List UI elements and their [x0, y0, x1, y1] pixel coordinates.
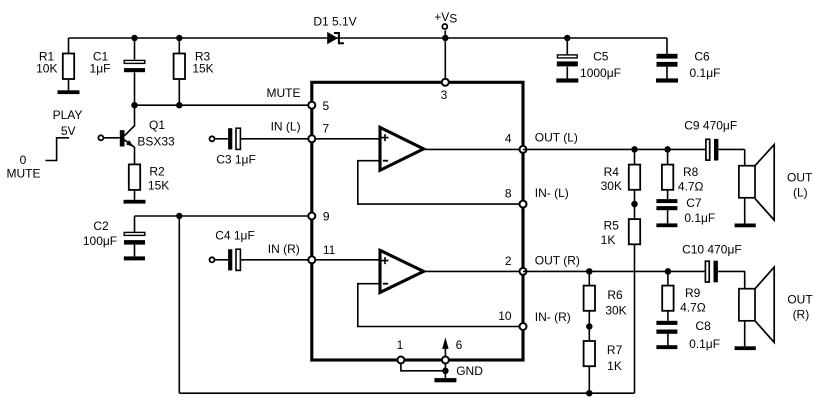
svg-text:1: 1	[397, 338, 404, 352]
resistor R3	[174, 38, 185, 105]
svg-text:C8: C8	[695, 319, 711, 333]
svg-text:R9: R9	[685, 286, 701, 300]
op-amp U1A (left channel)	[380, 127, 424, 170]
svg-text:C10 470μF: C10 470μF	[682, 243, 742, 257]
svg-text:1000μF: 1000μF	[580, 66, 621, 80]
capacitor C1	[124, 38, 145, 105]
wire pin 4 OUT (L)	[523, 148, 706, 150]
resistor R6	[584, 271, 595, 326]
capacitor C5	[557, 38, 578, 78]
svg-text:R8: R8	[683, 165, 699, 179]
ground for C6	[656, 78, 678, 82]
C5 value label	[580, 50, 621, 81]
ground for speaker R	[735, 346, 756, 350]
svg-text:D1 5.1V: D1 5.1V	[313, 15, 356, 29]
svg-text:1K: 1K	[601, 233, 616, 247]
op-amp U1 package outline	[312, 82, 523, 360]
node C5 junction	[564, 35, 571, 42]
pin 1	[397, 357, 404, 364]
wire pin 11 to U1B + input	[312, 259, 380, 261]
op-amp U1B (right channel)	[380, 250, 424, 292]
node R3 bottom junction	[176, 102, 183, 109]
wire pin 1 to ground junction	[401, 363, 446, 370]
svg-text:0.1μF: 0.1μF	[690, 66, 721, 80]
R4 value label	[601, 165, 622, 193]
node C1 top junction	[131, 35, 138, 42]
svg-text:4: 4	[505, 131, 512, 145]
svg-text:0.1μF: 0.1μF	[684, 211, 715, 225]
R8 value label	[678, 165, 704, 194]
ground for speaker L	[735, 224, 756, 228]
capacitor C3 input terminal	[210, 136, 229, 141]
svg-text:100μF: 100μF	[83, 234, 117, 248]
svg-text:GND: GND	[456, 364, 483, 378]
svg-text:7: 7	[323, 122, 330, 136]
node ground junction	[442, 368, 449, 375]
svg-text:S: S	[449, 12, 457, 26]
svg-text:10: 10	[498, 309, 512, 323]
wire junction down to bottom rail	[178, 216, 180, 393]
node R4 top junction	[631, 146, 638, 153]
capacitor C7	[656, 199, 677, 223]
svg-text:R4: R4	[604, 165, 620, 179]
pin 8	[520, 201, 527, 208]
OUT (R) output label	[787, 293, 813, 322]
svg-text:+V: +V	[434, 10, 449, 24]
resistor R1	[63, 38, 74, 90]
wire U1A - input feedback to pin 8	[358, 161, 523, 204]
wire pin 6 to ground	[444, 363, 446, 378]
wire C2 to pin 9	[135, 215, 312, 217]
pin 2	[520, 268, 527, 275]
C8 value label	[689, 319, 720, 351]
R1 value label	[36, 50, 57, 76]
ground for C7	[656, 223, 677, 227]
node R6/R7 junction	[586, 323, 593, 330]
svg-text:(R): (R)	[793, 308, 810, 322]
svg-text:30K: 30K	[601, 179, 622, 193]
svg-text:4.7Ω: 4.7Ω	[680, 301, 706, 315]
svg-text:OUT (R): OUT (R)	[535, 253, 580, 267]
diode D1 (zener 5.1V)	[327, 32, 344, 44]
wire MUTE net to pin 5	[135, 104, 312, 106]
R9 value label	[680, 286, 706, 315]
svg-text:PLAY: PLAY	[53, 108, 83, 122]
svg-text:10K: 10K	[36, 62, 57, 76]
node R9 top junction	[665, 268, 672, 275]
svg-text:11: 11	[323, 243, 336, 257]
capacitor C3	[228, 128, 312, 149]
resistor R8	[662, 149, 673, 199]
capacitor C9	[706, 139, 745, 161]
pin 10	[520, 323, 527, 330]
svg-text:C3 1μF: C3 1μF	[216, 152, 256, 166]
svg-text:0: 0	[20, 153, 27, 167]
svg-text:0.1μF: 0.1μF	[689, 337, 720, 351]
svg-text:1K: 1K	[607, 359, 622, 373]
ground for R1	[58, 90, 80, 94]
resistor R5	[629, 204, 640, 393]
R3 value label	[192, 50, 213, 76]
ground for R2	[124, 200, 146, 204]
C2 value label	[83, 219, 117, 248]
node R7 bottom junction	[586, 390, 593, 397]
node feedback-return junction	[176, 213, 183, 220]
pin 6 arrow inside package	[442, 337, 448, 357]
pin 6	[442, 357, 449, 364]
ground symbol GND	[434, 378, 456, 382]
svg-text:4.7Ω: 4.7Ω	[678, 180, 704, 194]
PLAY label	[7, 108, 83, 181]
transistor Q1	[120, 105, 135, 164]
svg-text:IN- (L): IN- (L)	[535, 186, 569, 200]
wire U1B output to pin 2	[424, 270, 523, 272]
svg-text:30K: 30K	[605, 304, 626, 318]
node R4/R5 junction	[631, 201, 638, 208]
svg-text:(L): (L)	[793, 186, 808, 200]
wire U1A output to pin 4	[424, 148, 523, 150]
ground for C2	[124, 256, 145, 260]
svg-text:C6: C6	[694, 50, 710, 64]
ground for C8	[656, 345, 677, 349]
svg-text:5: 5	[323, 99, 330, 113]
speaker OUT (L)	[739, 145, 774, 224]
capacitor C4 input terminal	[210, 257, 229, 262]
svg-text:OUT: OUT	[787, 171, 813, 185]
R7 value label	[607, 343, 623, 373]
svg-text:BSX33: BSX33	[137, 135, 175, 149]
svg-text:Q1: Q1	[149, 118, 165, 132]
Q1 value label	[137, 118, 175, 149]
pin 4	[520, 146, 527, 153]
svg-text:C5: C5	[593, 50, 609, 64]
capacitor C4	[228, 249, 312, 270]
svg-text:C2: C2	[93, 219, 109, 233]
pin 9	[308, 213, 315, 220]
wire C10 to speaker R	[744, 271, 746, 288]
svg-text:IN (L): IN (L)	[271, 119, 301, 133]
wire top supply rail	[69, 37, 668, 39]
svg-text:R6: R6	[607, 288, 623, 302]
wire U1B - input feedback to pin 10	[358, 284, 523, 327]
wire pin 2 OUT (R)	[523, 270, 705, 272]
wire pin 7 to U1A + input	[312, 138, 380, 140]
node +VS junction	[442, 35, 449, 42]
R6 value label	[605, 288, 626, 318]
R2 value label	[148, 165, 169, 193]
svg-text:C4 1μF: C4 1μF	[215, 229, 255, 243]
pin 11	[308, 256, 315, 263]
wire C9 to speaker L	[744, 149, 746, 165]
svg-text:2: 2	[505, 254, 512, 268]
+VS label	[434, 10, 457, 26]
svg-text:1μF: 1μF	[90, 62, 111, 76]
svg-text:R7: R7	[607, 343, 623, 357]
svg-text:C7: C7	[686, 196, 702, 210]
node R8 top junction	[664, 146, 671, 153]
svg-text:9: 9	[323, 210, 330, 224]
ground for C5	[556, 78, 578, 82]
svg-text:3: 3	[441, 88, 448, 102]
resistor R7	[584, 327, 595, 394]
capacitor C10	[705, 261, 745, 283]
+VS supply terminal	[442, 24, 447, 38]
capacitor C2	[124, 216, 145, 256]
pin 3	[442, 79, 449, 86]
node R6 top junction	[586, 268, 593, 275]
resistor R9	[662, 271, 673, 320]
C1 value label	[90, 50, 111, 76]
speaker OUT (R)	[739, 267, 774, 346]
transistor Q1 input terminal	[98, 135, 119, 140]
C7 value label	[684, 196, 715, 225]
OUT (L) output label	[787, 171, 813, 200]
svg-text:C9 470μF: C9 470μF	[684, 119, 737, 133]
svg-text:6: 6	[456, 338, 463, 352]
svg-text:OUT: OUT	[787, 293, 813, 307]
R5 value label	[601, 219, 620, 247]
wire bottom rail	[179, 392, 634, 394]
svg-text:MUTE: MUTE	[7, 167, 41, 181]
pin 5	[308, 102, 315, 109]
wire +VS to pin 3	[444, 38, 446, 82]
PLAY/MUTE step waveform	[45, 138, 69, 161]
capacitor C8	[656, 321, 677, 345]
svg-text:IN (R): IN (R)	[268, 242, 300, 256]
capacitor C6	[657, 38, 678, 78]
svg-text:R2: R2	[149, 165, 165, 179]
svg-text:MUTE: MUTE	[267, 86, 301, 100]
resistor R4	[629, 149, 640, 204]
svg-text:8: 8	[505, 187, 512, 201]
svg-text:IN- (R): IN- (R)	[535, 310, 571, 324]
C6 value label	[690, 50, 721, 81]
svg-text:5V: 5V	[61, 124, 76, 138]
svg-text:15K: 15K	[148, 178, 169, 192]
svg-text:R5: R5	[604, 219, 620, 233]
pin 7	[308, 135, 315, 142]
node R3 top junction	[176, 35, 183, 42]
svg-text:OUT (L): OUT (L)	[535, 131, 578, 145]
resistor R2	[129, 164, 140, 199]
node C1 bottom junction	[131, 102, 138, 109]
svg-text:15K: 15K	[192, 62, 213, 76]
